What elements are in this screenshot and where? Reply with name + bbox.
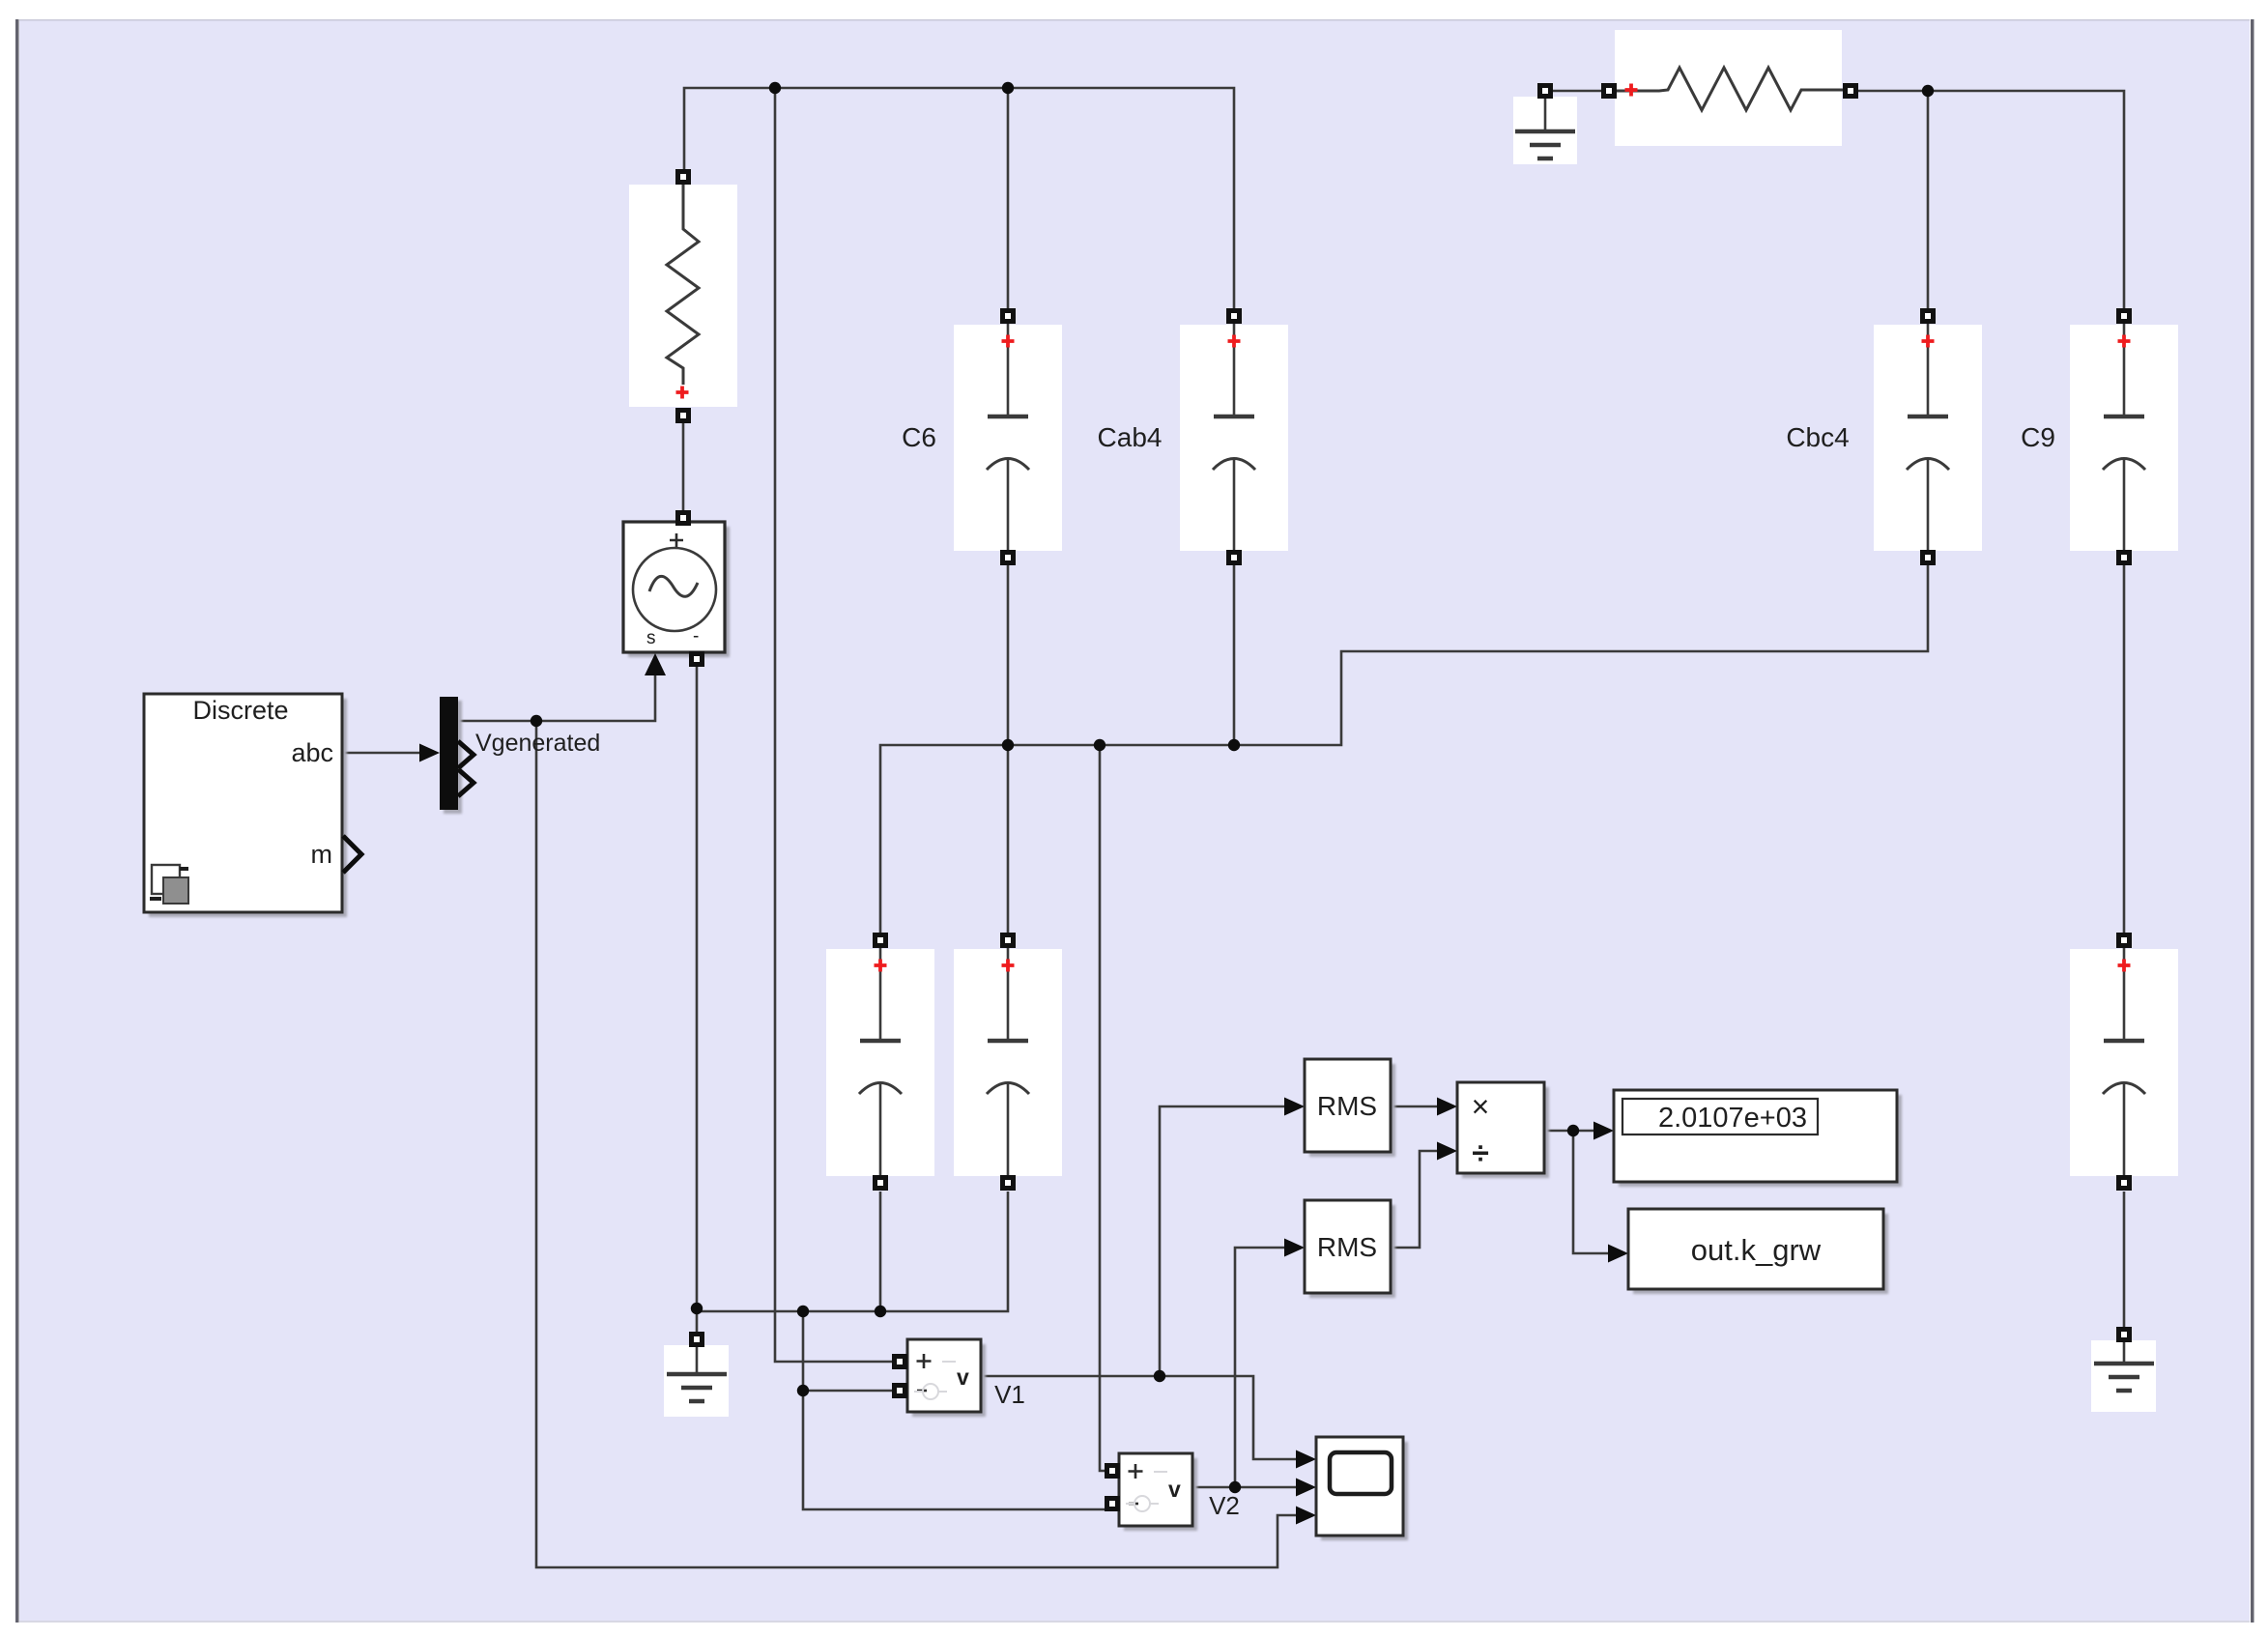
arrowhead into mux bbox=[419, 744, 440, 762]
capacitor Cab4 red plus bbox=[1228, 335, 1241, 348]
capacitor Cab4 top port bbox=[1226, 308, 1242, 324]
resistor R2 left port bbox=[1601, 83, 1617, 99]
wire from ground bus to V1 minus and V2 minus bbox=[803, 1311, 1105, 1509]
capacitor C6 label bbox=[902, 422, 936, 452]
wire ground G1 connection bbox=[696, 1311, 699, 1332]
out.k_grw block shadow bbox=[1633, 1214, 1888, 1294]
wire R2 right port to C9 top bbox=[1858, 91, 2124, 308]
junction dot on Vgenerated wire bbox=[531, 715, 542, 727]
wire Vgenerated (mux output to AC source s input) bbox=[458, 657, 655, 721]
resistor R2 background (horizontal, top right) bbox=[1615, 30, 1842, 146]
V1 plus port bbox=[892, 1354, 907, 1369]
resistor R1 bottom port bbox=[675, 408, 691, 423]
V2 minus port bbox=[1105, 1496, 1120, 1511]
junction dot mid bus at Cab4 bbox=[1228, 739, 1240, 751]
wire ground G2 to R2 left port bbox=[1545, 91, 1609, 99]
wire from top bus down to V1 plus input bbox=[775, 88, 893, 1362]
wire C9 bottom long run to lower C9 cap bbox=[2123, 560, 2126, 933]
wire V2 output to scope input 2 bbox=[1192, 1486, 1312, 1489]
wire RMS1 output to product x input bbox=[1391, 1106, 1453, 1108]
junction dot on V2 output bbox=[1229, 1481, 1241, 1493]
svg-text:RMS: RMS bbox=[1317, 1232, 1377, 1262]
wire mid bus down to V2 plus input bbox=[1100, 745, 1105, 1471]
RMS2 block shadow bbox=[1309, 1205, 1395, 1298]
junction dot on product output bbox=[1567, 1125, 1579, 1136]
wire Vgenerated branch down to scope input 3 bbox=[536, 721, 1312, 1567]
arrowhead into display bbox=[1593, 1122, 1614, 1140]
wire AC source minus down to ground bus bbox=[696, 667, 699, 1311]
capacitor Cab4 bottom port bbox=[1226, 550, 1242, 565]
svg-text:V2: V2 bbox=[1209, 1491, 1240, 1520]
wire lower C9 cap bottom to ground G3 bbox=[2123, 1192, 2126, 1327]
scope block shadow bbox=[1321, 1442, 1408, 1540]
capacitor C6 bottom port bbox=[1000, 550, 1016, 565]
junction dot mid bus at V2 branch bbox=[1094, 739, 1105, 751]
junction dot top bus at C6 bbox=[1002, 82, 1014, 94]
capacitor C10 bottom port bbox=[2116, 1175, 2132, 1191]
wire C7 bottom to ground bus bbox=[879, 1192, 882, 1311]
wire Cab4 bottom to mid bus bbox=[1233, 560, 1236, 745]
capacitor C10 top port bbox=[2116, 933, 2132, 948]
mux chevron 2 bbox=[458, 769, 474, 796]
capacitor Cbc4 top port bbox=[1920, 308, 1936, 324]
AC source s input arrowhead bbox=[645, 653, 666, 675]
V1 label bbox=[994, 1380, 1025, 1409]
wire R1 bottom to AC source top bbox=[682, 423, 685, 510]
mux chevron 1 bbox=[458, 741, 474, 768]
capacitor C9 top port bbox=[2116, 308, 2132, 324]
svg-text:×: × bbox=[1472, 1089, 1490, 1124]
capacitor C9 label bbox=[2021, 422, 2055, 452]
arrowhead into RMS2 bbox=[1284, 1239, 1305, 1257]
capacitor C6 red plus bbox=[1002, 335, 1015, 348]
RMS1 block bbox=[1305, 1059, 1391, 1152]
mux / bus creator bar bbox=[440, 697, 462, 814]
voltage measurement V2 bbox=[1119, 1453, 1192, 1526]
AC controlled voltage source U1 shadow bbox=[628, 527, 730, 657]
capacitor C8 bottom port bbox=[1000, 1175, 1016, 1191]
AC controlled voltage source U1 bbox=[623, 522, 725, 652]
capacitor C7 top port bbox=[873, 933, 888, 948]
arrowhead into out.k_grw bbox=[1608, 1245, 1628, 1263]
wire V1 output to scope input 1 bbox=[981, 1376, 1312, 1459]
wire branch to V1 minus bbox=[803, 1390, 893, 1393]
capacitor C9 bottom port bbox=[2116, 550, 2132, 565]
resistor R1 element (vertical zigzag) bbox=[667, 185, 699, 385]
display block shadow bbox=[1619, 1095, 1902, 1187]
resistor R2 red plus bbox=[1625, 84, 1638, 97]
V1 minus port bbox=[892, 1383, 907, 1398]
resistor R2 right port bbox=[1843, 83, 1858, 99]
wire product output branch to out.k_grw bbox=[1573, 1131, 1624, 1253]
wire C7 top up to mid bus and mid bus to Cbc4 bottom bbox=[880, 560, 1928, 933]
svg-text:÷: ÷ bbox=[1472, 1135, 1489, 1170]
voltage measurement V2 shadow bbox=[1124, 1458, 1197, 1531]
resistor R1 red plus bbox=[676, 387, 689, 399]
ground G2 symbol (top right) bbox=[1515, 99, 1575, 158]
ground G3 background (bottom right) bbox=[2091, 1340, 2156, 1412]
svg-text:Cab4: Cab4 bbox=[1098, 422, 1163, 452]
wire ground bus (lower) bbox=[697, 1192, 1008, 1311]
scope input arrowheads bbox=[1296, 1450, 1316, 1469]
capacitor C9 red plus bbox=[2118, 335, 2131, 348]
capacitor Cbc4 symbol bbox=[1907, 320, 1949, 557]
capacitor C7 symbol (lower left) bbox=[859, 944, 902, 1181]
svg-text:RMS: RMS bbox=[1317, 1091, 1377, 1121]
capacitor C8 symbol (lower right) bbox=[987, 944, 1029, 1181]
ground G2 background (top right) bbox=[1513, 97, 1577, 164]
junction dot ground bus at x=831 bbox=[797, 1306, 809, 1317]
capacitor Cab4 symbol bbox=[1213, 320, 1255, 557]
resistor R2 element (horizontal zigzag) bbox=[1617, 68, 1851, 110]
wire Discrete abc output to mux bbox=[342, 752, 419, 755]
ground G1 port bbox=[689, 1332, 704, 1347]
capacitor C6 symbol bbox=[987, 320, 1029, 557]
svg-text:Vgenerated: Vgenerated bbox=[475, 730, 600, 757]
junction dot on V1 output bbox=[1154, 1370, 1165, 1382]
AC source minus port bbox=[689, 651, 704, 667]
capacitor C10 red plus bbox=[2118, 960, 2131, 972]
Discrete m output chevron bbox=[343, 836, 361, 873]
node Vgenerated label bbox=[475, 730, 600, 757]
capacitor C10 symbol (lower right, under C9) bbox=[2103, 944, 2145, 1181]
junction dot right bus at Cbc4 bbox=[1922, 85, 1934, 97]
capacitor C6 background bbox=[954, 325, 1062, 551]
arrowhead into product x input bbox=[1437, 1098, 1457, 1116]
svg-text:v: v bbox=[957, 1364, 969, 1390]
ground G1 background (below source) bbox=[664, 1345, 729, 1417]
product (divide) block bbox=[1457, 1082, 1544, 1173]
svg-text:C9: C9 bbox=[2021, 422, 2055, 452]
V2 label bbox=[1209, 1491, 1240, 1520]
capacitor Cab4 background bbox=[1180, 325, 1288, 551]
svg-text:abc: abc bbox=[291, 738, 333, 767]
wire C6 bottom down to C8 top (through mid bus) bbox=[1007, 560, 1010, 933]
RMS2 block bbox=[1305, 1200, 1391, 1293]
junction dot ground bus at C7 bbox=[875, 1306, 886, 1317]
capacitor Cbc4 bottom port bbox=[1920, 550, 1936, 565]
junction dot mid bus at C6/C8 bbox=[1002, 739, 1014, 751]
wire from top bus down to C6 top bbox=[1007, 88, 1010, 308]
capacitor C8 top port bbox=[1000, 933, 1016, 948]
capacitor C6 top port bbox=[1000, 308, 1016, 324]
wire top bus from R1 top to Cab4 top bbox=[684, 88, 1234, 308]
capacitor C8 background (lower right unlabeled) bbox=[954, 949, 1062, 1176]
svg-text:V1: V1 bbox=[994, 1380, 1025, 1409]
wire RMS2 output to product divide input bbox=[1391, 1151, 1453, 1248]
wire V2 output branch up to RMS2 input bbox=[1235, 1248, 1301, 1487]
out.k_grw block bbox=[1628, 1209, 1883, 1289]
svg-text:Cbc4: Cbc4 bbox=[1786, 422, 1849, 452]
svg-text:2.0107e+03: 2.0107e+03 bbox=[1658, 1103, 1807, 1134]
ground G2 port bbox=[1537, 83, 1553, 99]
capacitor C8 red plus bbox=[1002, 960, 1015, 972]
ground G3 port bbox=[2116, 1327, 2132, 1342]
voltage measurement V1 bbox=[907, 1339, 981, 1412]
AC source top port bbox=[675, 510, 691, 526]
junction dot at V1 minus branch bbox=[797, 1385, 809, 1396]
svg-text:Discrete: Discrete bbox=[192, 696, 288, 725]
wire branch down to Cbc4 top bbox=[1927, 91, 1930, 308]
capacitor C7 bottom port bbox=[873, 1175, 888, 1191]
block Discrete (powergui) bbox=[144, 694, 342, 912]
voltage measurement V1 shadow bbox=[912, 1344, 986, 1417]
display block 2.0107e+03 bbox=[1614, 1090, 1897, 1182]
scope block bbox=[1316, 1437, 1403, 1536]
resistor R1 top port bbox=[675, 169, 691, 185]
capacitor C10 background (lower right, under C9) bbox=[2070, 949, 2178, 1176]
resistor R1 background (vertical, top left) bbox=[629, 185, 737, 407]
wire product output to display bbox=[1544, 1130, 1610, 1133]
svg-text:out.k_grw: out.k_grw bbox=[1691, 1233, 1822, 1267]
capacitor Cbc4 red plus bbox=[1922, 335, 1935, 348]
junction dot ground bus at AC minus bbox=[691, 1303, 703, 1314]
svg-text:-: - bbox=[693, 626, 699, 646]
capacitor C7 background (lower left unlabeled) bbox=[826, 949, 934, 1176]
arrowhead into product divide input bbox=[1437, 1142, 1457, 1161]
ground G3 symbol (bottom right) bbox=[2094, 1331, 2154, 1391]
capacitor C9 background bbox=[2070, 325, 2178, 551]
capacitor C9 symbol bbox=[2103, 320, 2145, 557]
wire V1 output branch up to RMS1 input bbox=[1160, 1106, 1301, 1376]
V2 plus port bbox=[1105, 1463, 1120, 1479]
RMS1 block shadow bbox=[1309, 1064, 1395, 1157]
ground G1 symbol (below AC source) bbox=[667, 1341, 727, 1401]
block Discrete (powergui) shadow bbox=[149, 699, 347, 917]
svg-text:v: v bbox=[1168, 1477, 1181, 1502]
svg-text:s: s bbox=[646, 628, 656, 648]
capacitor Cab4 label bbox=[1098, 422, 1163, 452]
Discrete subsystem icon bbox=[150, 865, 188, 904]
junction dot top bus at x=802 bbox=[769, 82, 781, 94]
arrowhead into RMS1 bbox=[1284, 1098, 1305, 1116]
svg-text:C6: C6 bbox=[902, 422, 936, 452]
svg-text:m: m bbox=[311, 840, 333, 869]
product (divide) block shadow bbox=[1462, 1087, 1549, 1178]
capacitor Cbc4 background bbox=[1874, 325, 1982, 551]
capacitor C7 red plus bbox=[875, 960, 887, 972]
capacitor Cbc4 label bbox=[1786, 422, 1849, 452]
